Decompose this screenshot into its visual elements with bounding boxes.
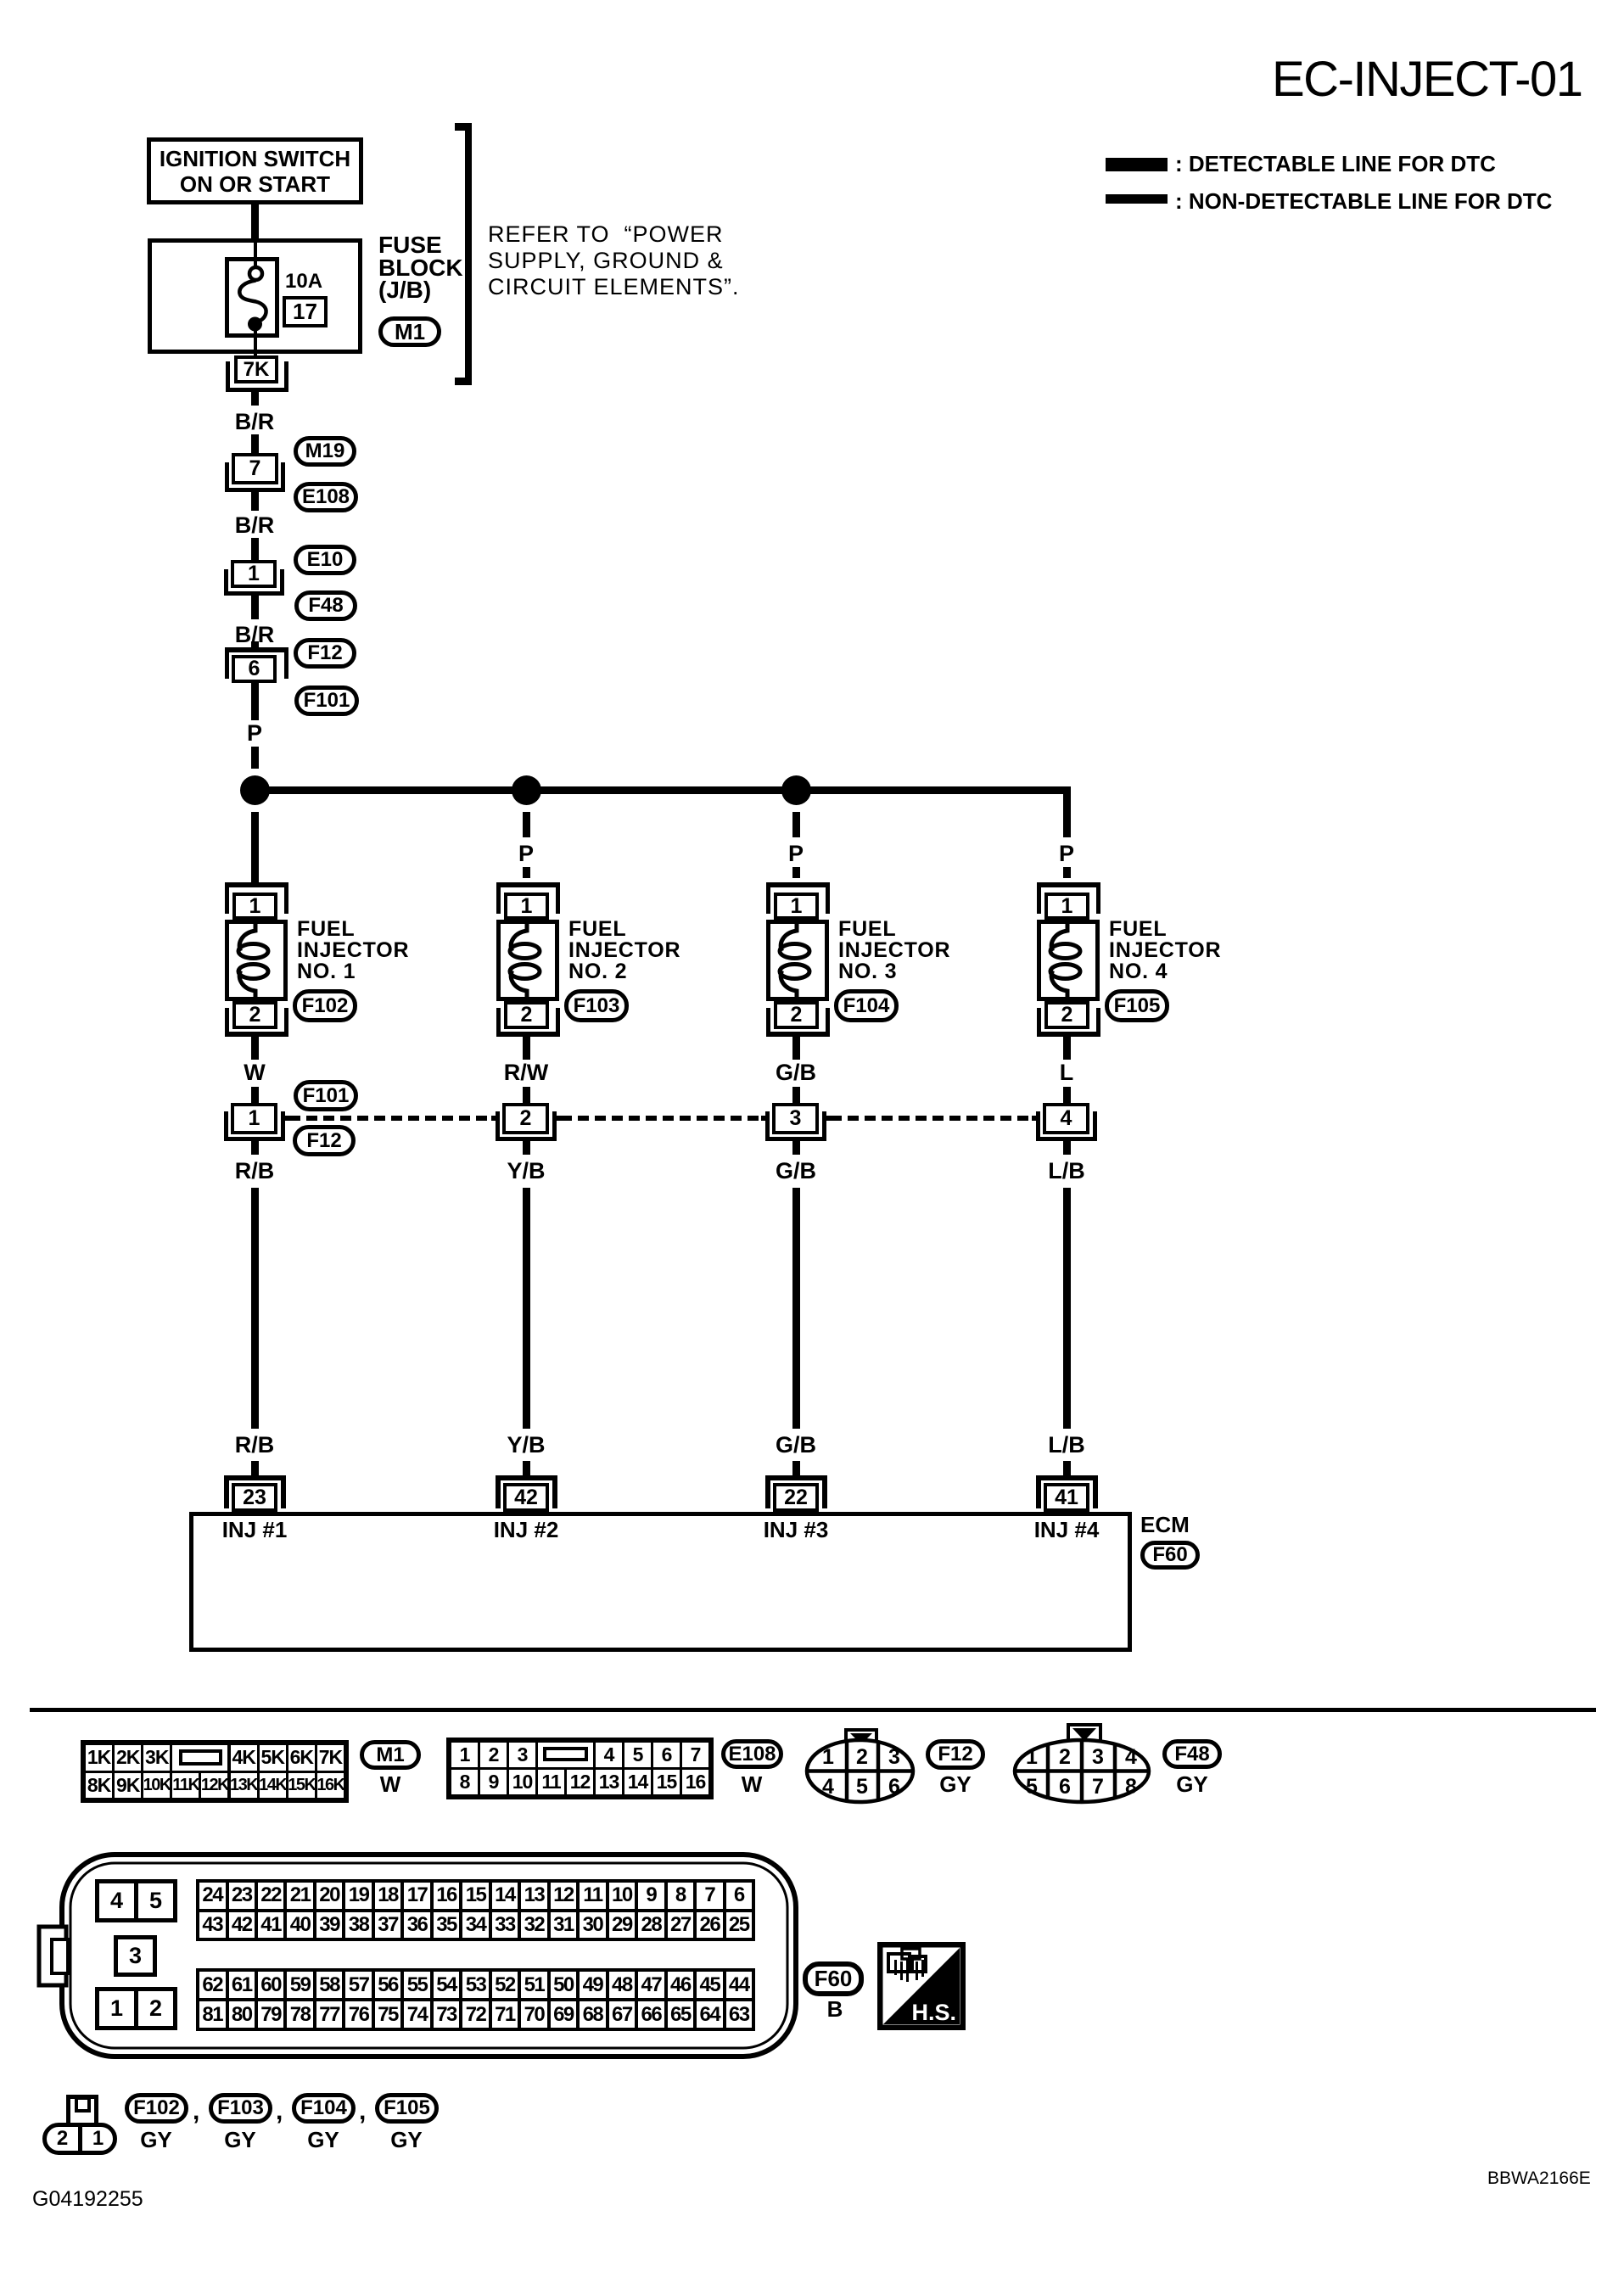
long wire column 1 (251, 1188, 259, 1429)
wire B/R to connector 1 (251, 538, 259, 560)
connector ref M1 (bottom) (360, 1740, 421, 1770)
connector ref F48 (bottom) (1162, 1739, 1222, 1769)
node junction 3 (781, 775, 811, 805)
wire label G/B (753, 1160, 838, 1183)
ECM box (189, 1512, 1132, 1652)
legend non-detectable text (1175, 190, 1552, 212)
wire to inline connector 3 (792, 1087, 800, 1103)
connector 6 box (232, 655, 277, 683)
note REFER TO POWER SUPPLY (488, 221, 740, 300)
ECM terminal label INJ #3 (745, 1519, 847, 1541)
wire label B/R (229, 514, 280, 537)
label FUEL INJECTOR NO. 1 (297, 919, 409, 982)
connector view F12 (oval 6-pin) (798, 1721, 925, 1807)
ignition switch box (147, 137, 363, 204)
wire below inline connector 1 (251, 1141, 259, 1155)
wire bus corner down (col4) (1063, 786, 1071, 837)
title EC-INJECT-01 (1272, 51, 1582, 108)
bus wire (P supply) (255, 786, 1071, 794)
long wire column 2 (523, 1188, 530, 1429)
svg-text:5: 5 (856, 1775, 868, 1799)
wire label P (col3) (783, 842, 809, 865)
wire connector 1 to B/R (251, 596, 259, 619)
svg-text:2: 2 (856, 1745, 868, 1769)
separator line (30, 1708, 1596, 1712)
wire label G/B (753, 1061, 838, 1084)
svg-text:8: 8 (1125, 1775, 1137, 1799)
connector ref F104 (834, 989, 899, 1022)
connector ref E10 (294, 545, 356, 575)
wire label R/B (lower) (212, 1434, 297, 1457)
inline connector pin 3 bracket (765, 1111, 770, 1141)
wire to ECM pin 22 (792, 1461, 800, 1475)
ECM pin 23 bracket (224, 1475, 286, 1480)
wire connector 7 to B/R (251, 492, 259, 511)
wire dash P to junction (251, 747, 259, 769)
wire dash (col2) (523, 867, 530, 878)
ECM connector cell 3 (114, 1935, 157, 1977)
wire to ECM pin 42 (523, 1461, 530, 1475)
ECM connector cell 4 5 (95, 1879, 177, 1922)
wire into fuse (thin) (254, 243, 257, 267)
svg-text:6: 6 (1059, 1775, 1071, 1799)
fuel injector no. 4 connector bracket top (1037, 882, 1100, 887)
ECM pin 23 box (232, 1483, 277, 1512)
connector 7 box (232, 453, 278, 484)
ECM pin 22 box (773, 1483, 819, 1512)
color label W (E108) (718, 1773, 786, 1795)
wire to ECM pin 41 (1063, 1461, 1071, 1475)
ECM terminal label INJ #1 (204, 1519, 305, 1541)
inline connector pin 4 box (1043, 1103, 1089, 1134)
fuel injector no. 1 coil body (225, 920, 288, 1001)
legend non-detectable line bar (1106, 194, 1168, 204)
wire to inline connector 1 (251, 1087, 259, 1103)
fuel injector no. 1 pin 2 (232, 1001, 277, 1029)
wire label L (1024, 1061, 1109, 1084)
connector 6 bracket (top) (225, 647, 288, 652)
connector ref F60 (bottom) (803, 1961, 864, 1996)
connector ref F104 (bottom) (292, 2093, 356, 2124)
connector ref F60 (1140, 1541, 1200, 1570)
connector view F48 (oval 8-pin) (1010, 1717, 1159, 1807)
connector ref F103 (bottom) (209, 2093, 272, 2124)
ECM terminal label INJ #4 (1016, 1519, 1117, 1541)
wire label P (col2) (513, 842, 539, 865)
fuel injector no. 3 pin 2 (774, 1001, 819, 1029)
F12 oval (inline connector) (293, 1125, 356, 1156)
wire to inline connector 2 (523, 1087, 530, 1103)
svg-text:H.S.: H.S. (911, 2000, 956, 2025)
footer id G04192255 (32, 2187, 143, 2212)
injector connector view (2-1) tab (66, 2095, 98, 2127)
color label GY (F12) (921, 1773, 989, 1795)
connector ref M1 (378, 316, 441, 347)
svg-text:4: 4 (822, 1775, 834, 1799)
wire label L/B (lower) (1024, 1434, 1109, 1457)
connector ref F48 (294, 590, 357, 621)
label FUEL INJECTOR NO. 3 (838, 919, 950, 982)
fuel injector no. 4 pin 1 (1044, 893, 1089, 920)
connector ref F105 (bottom) (375, 2093, 439, 2124)
node junction 1 (240, 775, 270, 805)
fuel injector no. 4 pin 2 (1044, 1001, 1089, 1029)
svg-text:5: 5 (1026, 1775, 1038, 1799)
label FUEL INJECTOR NO. 4 (1109, 919, 1221, 982)
wire injector 2 pin2 down (523, 1037, 530, 1060)
color label B (F60) (801, 1998, 869, 2020)
wire junction2 down dash (523, 812, 530, 837)
connector ref F105 (1105, 989, 1169, 1022)
fuel injector no. 4 connector bracket bottom (1037, 1008, 1041, 1032)
wire below inline connector 2 (523, 1141, 530, 1155)
wire label P (col4) (1054, 842, 1079, 865)
wire injector 4 pin2 down (1063, 1037, 1071, 1060)
commas between refs (193, 2097, 199, 2126)
ECM pin 42 bracket (496, 1475, 557, 1480)
fuse label 10A (285, 270, 322, 294)
fuel injector no. 1 connector bracket top (225, 882, 288, 887)
connector ref M19 (294, 436, 356, 467)
wire junction1 to injector 1 (251, 812, 259, 882)
footer id BBWA2166E (1487, 2168, 1591, 2189)
connector ref F103 (564, 989, 629, 1022)
bracket (refer-to) (465, 123, 472, 385)
fuse block label FUSE BLOCK (J/B) (378, 234, 463, 302)
ECM pin 42 box (503, 1483, 549, 1512)
fuse 10A symbol (225, 257, 279, 338)
injector connector view body 2 1 (42, 2123, 117, 2155)
connector 1 bracket (224, 569, 228, 596)
connector ref F102 (293, 989, 357, 1022)
connector view M1 grid (81, 1740, 349, 1803)
color label W (M1) (356, 1773, 424, 1795)
dashed link inline connectors 3-4 (822, 1116, 831, 1121)
wire label B/R (229, 624, 280, 646)
wire label B/R (229, 411, 280, 434)
color label GY (F48) (1158, 1773, 1226, 1795)
dashed link inline connectors 2-3 (552, 1116, 561, 1121)
fuse block box M1 (148, 238, 362, 354)
connector ref E108 (294, 482, 358, 512)
svg-text:4: 4 (1125, 1745, 1137, 1769)
node junction 2 (512, 775, 541, 805)
fuel injector no. 1 connector bracket bottom (225, 1008, 229, 1032)
connector 7 bracket (225, 462, 229, 492)
fuel injector no. 3 pin 1 (774, 893, 819, 920)
H.S. badge (877, 1942, 966, 2030)
fuse number box 17 (283, 296, 328, 327)
wire label R/B (212, 1160, 297, 1183)
ECM connector cell 1 2 (95, 1987, 177, 2030)
wire dash (col4) (1063, 867, 1071, 878)
connector 7K box (234, 355, 278, 383)
wire label L/B (1024, 1160, 1109, 1183)
connector 1 box (231, 560, 277, 588)
ECM connector view F60 outline (34, 1849, 802, 2062)
long wire column 4 (1063, 1188, 1071, 1429)
wire label G/B (lower) (753, 1434, 838, 1457)
inline connector pin 2 bracket (496, 1111, 500, 1141)
fuel injector no. 2 pin 2 (504, 1001, 549, 1029)
wire label P (242, 722, 267, 745)
wire to inline connector 4 (1063, 1087, 1071, 1103)
wire label R/W (484, 1061, 568, 1084)
wire 7K to B/R (251, 392, 259, 406)
wire out of fuse (thin) (254, 331, 257, 355)
fuel injector no. 2 pin 1 (504, 893, 549, 920)
wire junction3 down dash (792, 812, 800, 837)
svg-text:7: 7 (1092, 1775, 1104, 1799)
label FUEL INJECTOR NO. 2 (568, 919, 680, 982)
wire B/R to connector 6 (251, 641, 259, 648)
fuel injector no. 1 pin 1 (232, 893, 277, 920)
legend detectable line bar (1106, 158, 1168, 171)
wire label Y/B (484, 1160, 568, 1183)
connector ref E108 (bottom) (721, 1739, 783, 1769)
connector view E108 grid (446, 1738, 714, 1799)
dashed link inline connectors 1-2 (281, 1116, 289, 1121)
ECM terminal label INJ #2 (475, 1519, 577, 1541)
connector 7K bracket (226, 361, 230, 392)
wire dash (col3) (792, 867, 800, 878)
inline connector pin 1 bracket (224, 1111, 228, 1141)
inline connector pin 2 box (502, 1103, 549, 1134)
wire connector 6 down (251, 683, 259, 720)
inline connector pin 4 bracket (1036, 1111, 1040, 1141)
wire injector 3 pin2 down (792, 1037, 800, 1060)
fuel injector no. 3 coil body (766, 920, 829, 1001)
wire B/R to connector 7 (251, 434, 259, 453)
wire below inline connector 3 (792, 1141, 800, 1155)
wire injector 1 pin2 down (251, 1037, 259, 1060)
inline connector pin 1 box (231, 1103, 277, 1134)
svg-text:2: 2 (1059, 1745, 1071, 1769)
wire label W (212, 1061, 297, 1084)
connector ref F12 (bottom) (926, 1739, 985, 1770)
wire ignition switch to fuse block (251, 204, 259, 238)
ECM label (1140, 1512, 1190, 1538)
inline connector pin 3 box (772, 1103, 819, 1134)
wire below inline connector 4 (1063, 1141, 1071, 1155)
fuel injector no. 2 connector bracket bottom (496, 1008, 501, 1032)
fuel injector no. 4 coil body (1037, 920, 1100, 1001)
fuel injector no. 2 connector bracket top (496, 882, 560, 887)
connector ref F101 (294, 686, 359, 716)
wire label Y/B (lower) (484, 1434, 568, 1457)
ECM pin 41 bracket (1036, 1475, 1098, 1480)
ECM pin 41 box (1044, 1483, 1089, 1512)
fuel injector no. 3 connector bracket bottom (766, 1008, 770, 1032)
ECM pin 22 bracket (765, 1475, 827, 1480)
F101 oval (inline connector) (294, 1080, 358, 1111)
long wire column 3 (792, 1188, 800, 1429)
svg-text:6: 6 (888, 1775, 900, 1799)
svg-text:1: 1 (1026, 1745, 1038, 1769)
ECM pin grid lower (196, 1968, 755, 2031)
ECM pin grid upper (196, 1879, 755, 1941)
wire to ECM pin 23 (251, 1461, 259, 1475)
fuel injector no. 3 connector bracket top (766, 882, 830, 887)
connector ref F12 (294, 638, 356, 669)
svg-text:1: 1 (822, 1745, 834, 1769)
svg-text:3: 3 (1092, 1745, 1104, 1769)
legend detectable text (1175, 153, 1496, 175)
connector ref F102 (bottom) (125, 2093, 188, 2124)
fuel injector no. 2 coil body (496, 920, 559, 1001)
svg-text:3: 3 (888, 1745, 900, 1769)
